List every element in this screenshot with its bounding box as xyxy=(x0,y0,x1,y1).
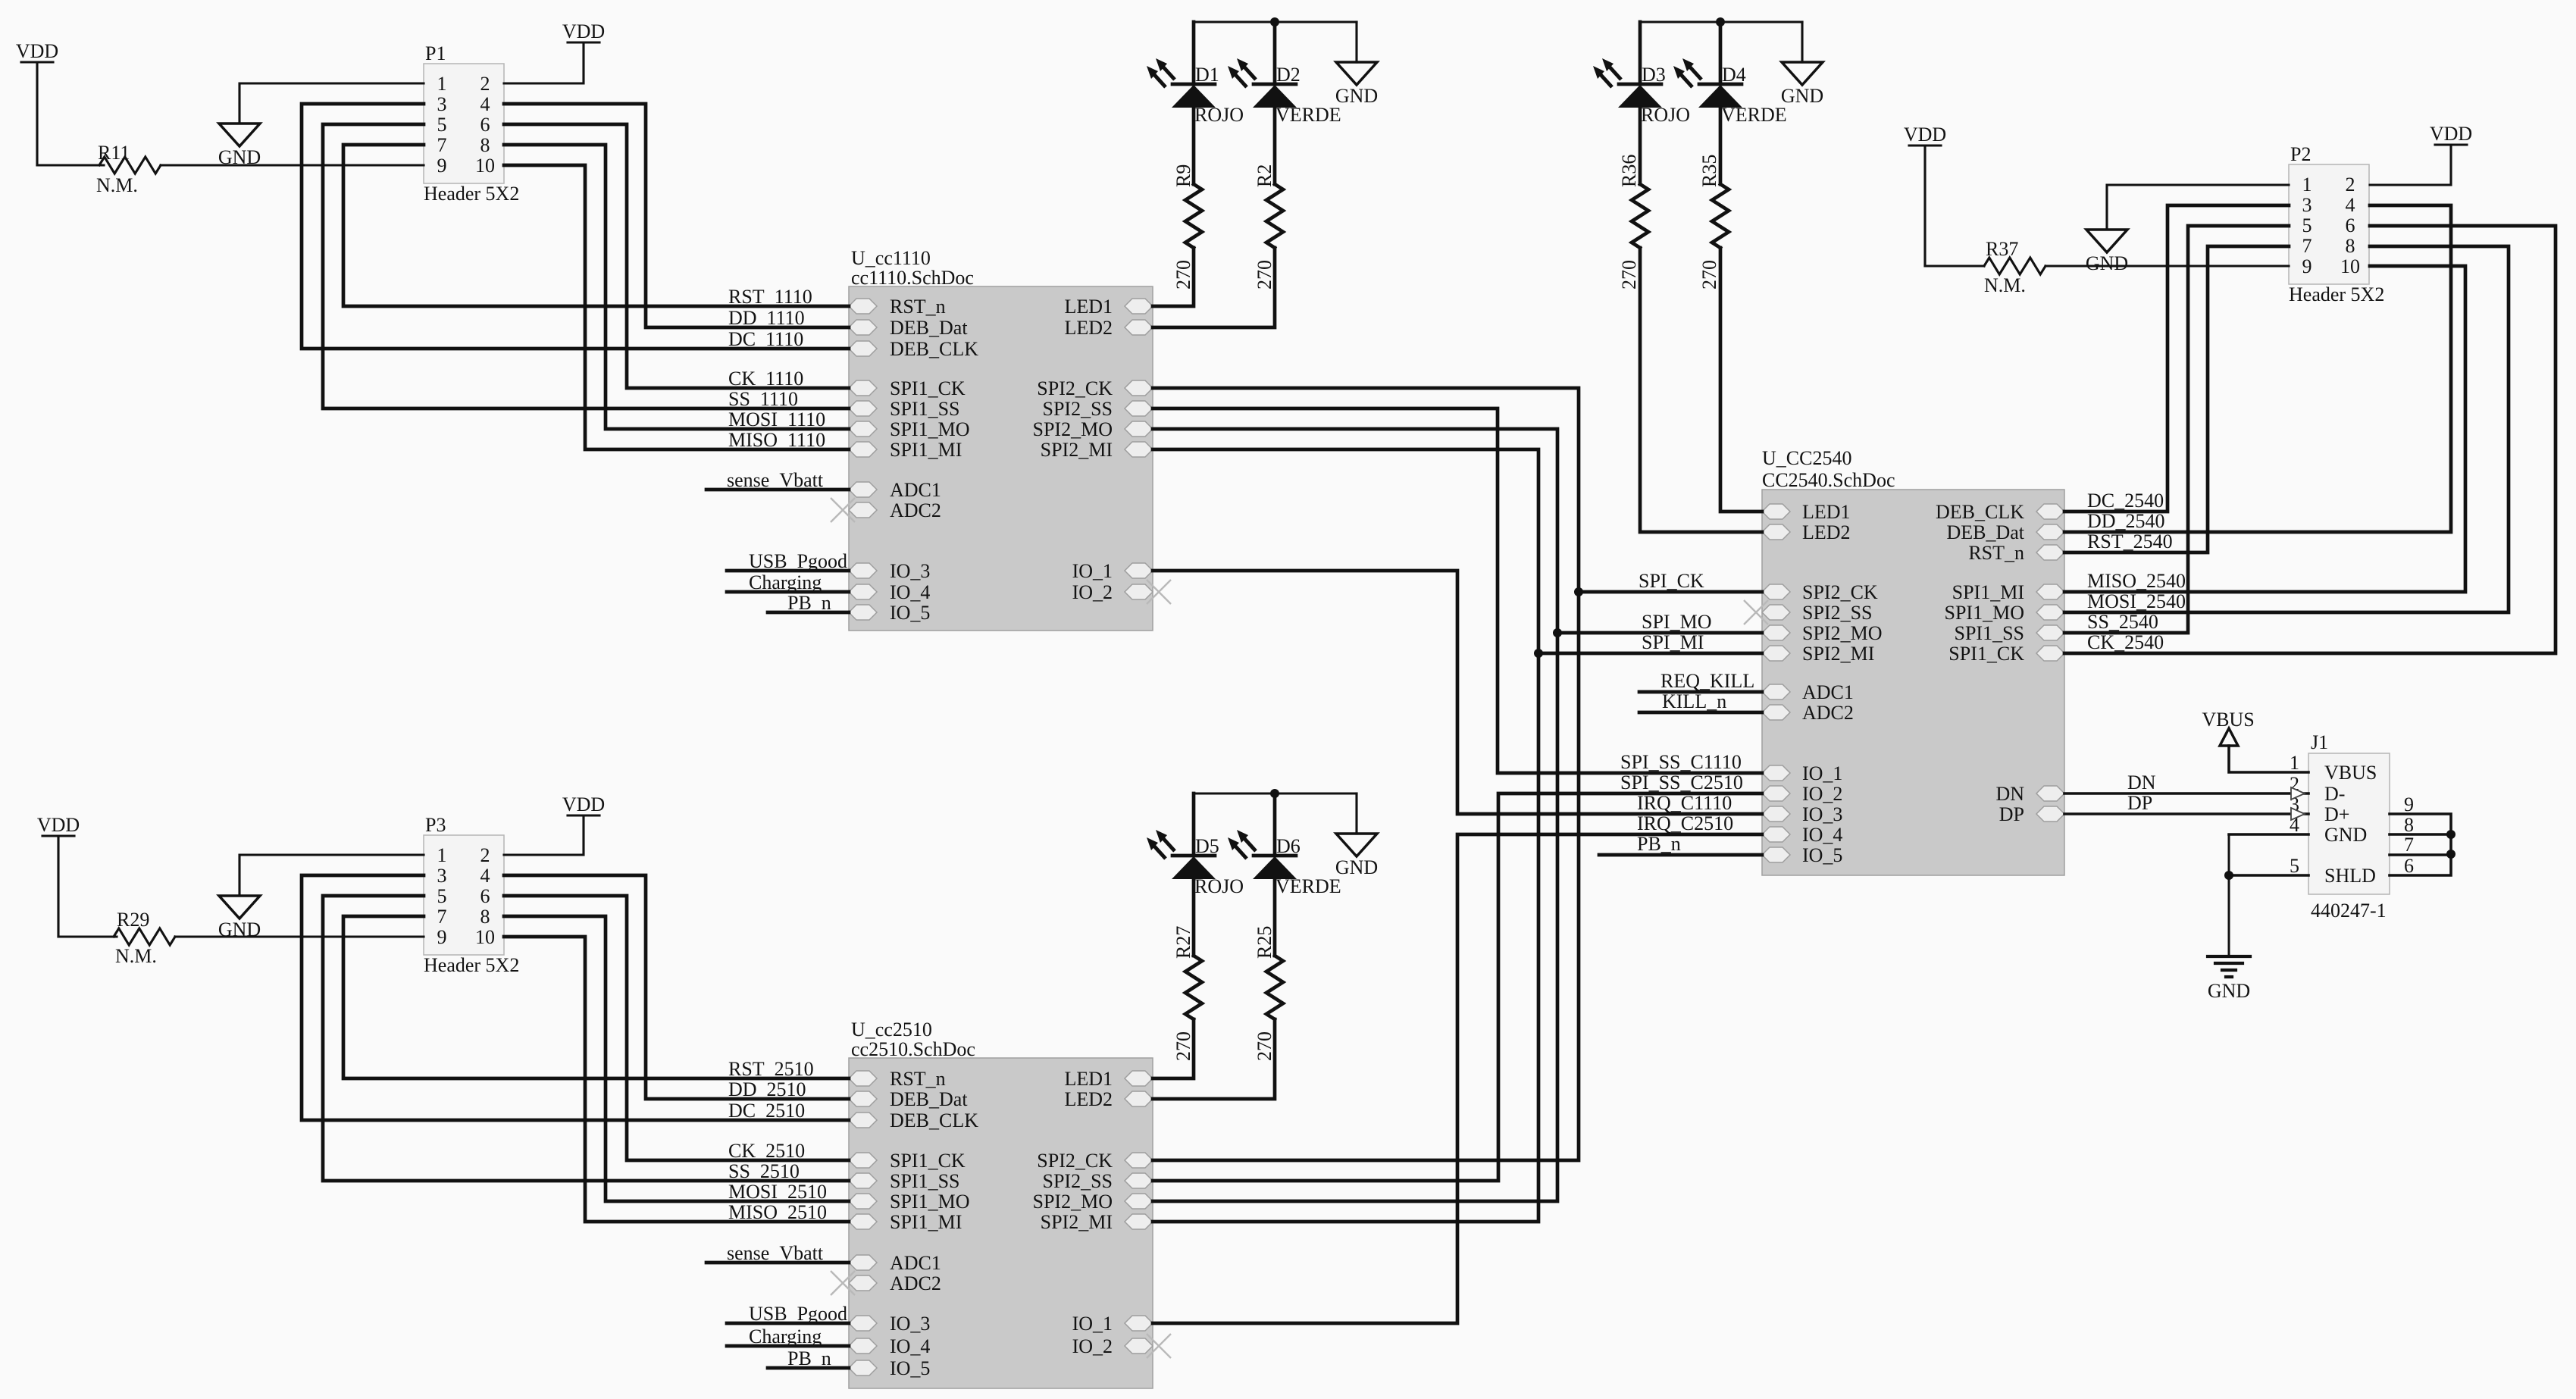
svg-text:440247-1: 440247-1 xyxy=(2311,900,2387,922)
wire net DC_1110 P1 pin3 to DEB_CLK xyxy=(302,104,849,349)
wire net SS_2510 P3 pin5 to SPI1_SS xyxy=(323,896,849,1181)
svg-text:MOSI_2540: MOSI_2540 xyxy=(2087,590,2186,612)
svg-text:SPI2_MI: SPI2_MI xyxy=(1802,643,1874,665)
svg-text:5: 5 xyxy=(437,885,447,907)
svg-text:LED1: LED1 xyxy=(1064,296,1113,318)
svg-text:SPI1_CK: SPI1_CK xyxy=(890,1150,966,1172)
svg-text:KILL_n: KILL_n xyxy=(1662,690,1726,712)
wire SPI_MI tap to CC2540 SPI2_MI xyxy=(1538,652,1762,656)
junction SHLD GND xyxy=(2224,871,2233,880)
wire R11 to P1 pin9 xyxy=(161,164,424,166)
svg-text:3: 3 xyxy=(437,865,447,887)
power VBUS xyxy=(2202,709,2254,746)
svg-text:SS_1110: SS_1110 xyxy=(728,388,798,410)
svg-text:RST_n: RST_n xyxy=(1968,542,2024,564)
wire D4 to R35 xyxy=(1719,108,1723,184)
svg-text:P2: P2 xyxy=(2290,143,2311,165)
svg-text:RST_2540: RST_2540 xyxy=(2087,530,2173,552)
wire cc2510 LED2 to R25 xyxy=(1153,1019,1275,1099)
wire net SPI_SS_C2510 CC2540 IO_2 to cc2510 SPI2_SS xyxy=(1153,793,1762,1181)
wire R37 to P2 pin9 xyxy=(2045,264,2289,267)
svg-text:DP: DP xyxy=(2127,792,2152,814)
wire R35 to CC2540 LED1 xyxy=(1720,248,1762,512)
svg-text:MISO_2540: MISO_2540 xyxy=(2087,570,2186,592)
svg-text:D6: D6 xyxy=(1276,835,1301,857)
wire to resistor R29 xyxy=(58,935,117,937)
svg-text:DD_2540: DD_2540 xyxy=(2087,510,2165,532)
svg-text:8: 8 xyxy=(480,134,490,156)
svg-text:GND: GND xyxy=(218,146,261,168)
wire net DD_2510 P3 pin4 to DEB_Dat xyxy=(504,875,849,1099)
svg-text:SPI2_MI: SPI2_MI xyxy=(1041,439,1113,461)
svg-text:SPI1_MI: SPI1_MI xyxy=(890,1211,962,1233)
svg-text:D-: D- xyxy=(2324,783,2345,805)
svg-text:IO_3: IO_3 xyxy=(1802,803,1842,825)
wire net CK_2510 P3 pin6 to SPI1_CK xyxy=(504,896,849,1160)
svg-text:Charging: Charging xyxy=(749,1325,822,1347)
svg-text:ADC2: ADC2 xyxy=(890,499,941,521)
wire net MISO_1110 P1 pin10 to SPI1_MI xyxy=(504,165,849,449)
svg-text:9: 9 xyxy=(2302,255,2312,277)
resistor R35 zigzag xyxy=(1712,184,1729,248)
svg-text:DEB_CLK: DEB_CLK xyxy=(890,1109,978,1131)
no-connect X on U_cc2510 ADC2 xyxy=(831,1271,855,1295)
sheet symbol U_CC2540 xyxy=(1762,490,2064,875)
power VDD (bottom-left) xyxy=(37,814,80,836)
wire net MISO_2540 SPI1_MI to P2 pin10 xyxy=(2064,266,2465,592)
svg-text:SHLD: SHLD xyxy=(2324,865,2376,887)
svg-text:P3: P3 xyxy=(425,814,446,836)
wire D5 D6 top rail xyxy=(1194,792,1357,794)
wire VDD to R37 xyxy=(1923,146,1926,266)
svg-text:DC_1110: DC_1110 xyxy=(728,328,803,350)
resistor R11 zigzag xyxy=(99,157,161,174)
svg-text:GND: GND xyxy=(1335,856,1378,878)
svg-text:DC_2540: DC_2540 xyxy=(2087,490,2164,512)
svg-text:DN: DN xyxy=(1995,783,2024,805)
wire net SPI_MO bus cc1110 SPI2_MO to cc2510 SPI2_MO xyxy=(1153,429,1557,1201)
resistor R29 zigzag xyxy=(114,928,175,945)
J1 pin names xyxy=(2324,762,2377,887)
svg-text:SPI1_SS: SPI1_SS xyxy=(890,1170,960,1192)
wire net sense_Vbatt to ADC1 xyxy=(706,488,849,492)
wire J1 pin4 GND xyxy=(2229,833,2308,836)
svg-text:D1: D1 xyxy=(1195,64,1219,86)
wire net SPI_MI bus cc1110 SPI2_MI to cc2510 SPI2_MI xyxy=(1153,449,1538,1222)
svg-text:SPI_MO: SPI_MO xyxy=(1642,611,1711,633)
svg-text:SPI2_SS: SPI2_SS xyxy=(1802,602,1873,624)
svg-text:IO_1: IO_1 xyxy=(1072,1313,1113,1335)
wire P3 pin1 to GND xyxy=(239,855,424,896)
svg-text:DEB_Dat: DEB_Dat xyxy=(890,1088,968,1110)
svg-text:VERDE: VERDE xyxy=(1275,875,1341,897)
svg-text:SPI1_CK: SPI1_CK xyxy=(1948,643,2024,665)
svg-text:SPI1_MI: SPI1_MI xyxy=(1952,581,2024,603)
svg-text:10: 10 xyxy=(475,155,495,177)
connector P2 header 5x2 xyxy=(2289,143,2384,305)
svg-text:5: 5 xyxy=(437,114,447,136)
svg-text:VDD: VDD xyxy=(16,40,58,62)
svg-text:R11: R11 xyxy=(98,142,130,164)
power VDD (R37) xyxy=(1904,124,1946,146)
wire P1 pin2 to VDD xyxy=(504,42,584,83)
wire net CK_2540 SPI1_CK to P2 pin6 xyxy=(2064,226,2556,653)
svg-text:270: 270 xyxy=(1618,260,1640,290)
svg-text:USB_Pgood: USB_Pgood xyxy=(749,550,847,572)
power VDD (top-left) xyxy=(16,40,58,62)
svg-text:7: 7 xyxy=(437,906,447,928)
wire R2 to D2 xyxy=(1273,108,1277,184)
svg-text:DEB_CLK: DEB_CLK xyxy=(890,338,978,360)
svg-text:SPI2_MO: SPI2_MO xyxy=(1802,622,1882,644)
svg-text:270: 270 xyxy=(1254,260,1275,290)
wire net MISO_2510 P3 pin10 to SPI1_MI xyxy=(504,937,849,1222)
svg-text:ADC1: ADC1 xyxy=(1802,681,1854,703)
svg-text:Header 5X2: Header 5X2 xyxy=(424,183,519,205)
sheet symbol U_cc1110 xyxy=(849,286,1153,631)
svg-text:CC2540.SchDoc: CC2540.SchDoc xyxy=(1762,469,1895,491)
wire net MOSI_1110 P1 pin8 to SPI1_MO xyxy=(504,145,849,429)
wire VDD to R29 xyxy=(57,836,59,937)
wire net IRQ_C2510 CC2540 IO_4 to cc2510 IO_1 xyxy=(1153,834,1762,1323)
wire net MOSI_2510 P3 pin8 to SPI1_MO xyxy=(504,916,849,1201)
svg-text:6: 6 xyxy=(480,114,490,136)
wire net SS_2540 SPI1_SS to P2 pin5 xyxy=(2064,226,2289,633)
svg-text:PB_n: PB_n xyxy=(787,592,831,614)
svg-text:SPI2_MO: SPI2_MO xyxy=(1033,418,1113,440)
svg-text:GND: GND xyxy=(1335,85,1378,107)
svg-text:D3: D3 xyxy=(1642,64,1666,86)
svg-text:SPI_SS_C2510: SPI_SS_C2510 xyxy=(1620,771,1743,793)
svg-text:GND: GND xyxy=(2086,252,2128,274)
resistor R25 zigzag xyxy=(1266,956,1283,1019)
wire net DD_2540 DEB_Dat to P2 pin4 xyxy=(2064,205,2451,532)
power VDD (P3 pin2) xyxy=(562,793,605,815)
svg-text:SPI2_CK: SPI2_CK xyxy=(1037,377,1113,399)
LED D1 ROJO xyxy=(1147,58,1244,126)
svg-text:IO_5: IO_5 xyxy=(890,1357,930,1379)
svg-text:N.M.: N.M. xyxy=(96,174,138,196)
earth ground GND (J1) xyxy=(2208,956,2250,1002)
wire P2 pin2 to VDD xyxy=(2370,145,2451,185)
wire net CK_1110 P1 pin6 to SPI1_CK xyxy=(504,124,849,388)
svg-text:RST_n: RST_n xyxy=(890,1068,946,1090)
svg-text:SPI1_MO: SPI1_MO xyxy=(890,1191,969,1213)
svg-text:ROJO: ROJO xyxy=(1194,104,1244,126)
ground GND (D3 D4) xyxy=(1781,62,1823,107)
svg-text:SPI1_MI: SPI1_MI xyxy=(890,439,962,461)
resistor R37 zigzag xyxy=(1984,258,2045,274)
junction SPI_CK xyxy=(1574,587,1583,596)
svg-text:RST_1110: RST_1110 xyxy=(728,286,812,308)
svg-text:VERDE: VERDE xyxy=(1721,104,1787,126)
svg-text:VDD: VDD xyxy=(1904,124,1946,146)
wire SPI_MO tap to CC2540 SPI2_MO xyxy=(1557,631,1762,635)
svg-text:5: 5 xyxy=(2302,214,2312,236)
svg-text:CK_1110: CK_1110 xyxy=(728,368,803,390)
resistor R9 zigzag xyxy=(1185,184,1202,248)
wire R36 to CC2540 LED2 xyxy=(1640,248,1762,532)
svg-text:IO_5: IO_5 xyxy=(1802,844,1842,866)
svg-text:ROJO: ROJO xyxy=(1641,104,1690,126)
svg-text:SS_2540: SS_2540 xyxy=(2087,611,2158,633)
wire SPI_CK tap to CC2540 SPI2_CK xyxy=(1579,590,1762,594)
svg-text:SPI_CK: SPI_CK xyxy=(1639,570,1704,592)
svg-text:7: 7 xyxy=(437,134,447,156)
svg-text:SPI2_MI: SPI2_MI xyxy=(1041,1211,1113,1233)
svg-text:270: 270 xyxy=(1698,260,1720,290)
svg-text:VDD: VDD xyxy=(2430,123,2472,145)
svg-text:VBUS: VBUS xyxy=(2324,762,2377,784)
svg-text:IO_1: IO_1 xyxy=(1802,762,1842,784)
J1 pin numbers xyxy=(2290,752,2414,877)
wire net KILL_n to ADC2 xyxy=(1639,711,1762,715)
svg-text:U_cc2510: U_cc2510 xyxy=(851,1019,932,1041)
svg-text:LED1: LED1 xyxy=(1064,1068,1113,1090)
svg-text:SPI2_MO: SPI2_MO xyxy=(1033,1191,1113,1213)
svg-text:Header 5X2: Header 5X2 xyxy=(424,954,519,976)
no-connect X on U_cc1110 IO_2 xyxy=(1147,580,1171,604)
connector J1 440247-1 xyxy=(2308,753,2390,894)
svg-text:VDD: VDD xyxy=(37,814,80,836)
svg-text:IO_2: IO_2 xyxy=(1802,783,1842,805)
svg-text:6: 6 xyxy=(2346,214,2355,236)
svg-text:PB_n: PB_n xyxy=(1637,833,1681,855)
junction J1 pin8 xyxy=(2446,830,2455,839)
wire LED top rail to GND xyxy=(1194,20,1357,23)
svg-text:RST_2510: RST_2510 xyxy=(728,1058,814,1080)
wire D2 to top rail xyxy=(1273,22,1277,84)
svg-text:LED2: LED2 xyxy=(1802,521,1851,543)
resistor R27 zigzag xyxy=(1185,956,1202,1019)
svg-text:R25: R25 xyxy=(1254,926,1275,959)
svg-text:R27: R27 xyxy=(1172,926,1194,959)
svg-text:7: 7 xyxy=(2302,235,2312,257)
wire J1 pin5 SHLD xyxy=(2229,874,2308,877)
svg-text:9: 9 xyxy=(437,155,447,177)
resistor R2 zigzag xyxy=(1266,184,1283,248)
svg-text:SPI2_CK: SPI2_CK xyxy=(1802,581,1878,603)
svg-text:IO_2: IO_2 xyxy=(1072,581,1113,603)
svg-text:DN: DN xyxy=(2127,771,2156,793)
wire net PB_n to CC2540 IO_5 xyxy=(1599,853,1762,857)
svg-text:SPI_SS_C1110: SPI_SS_C1110 xyxy=(1620,751,1742,773)
wire R9 to D1 xyxy=(1192,108,1196,184)
svg-text:IO_4: IO_4 xyxy=(1802,824,1842,846)
svg-text:SPI_MI: SPI_MI xyxy=(1642,631,1704,653)
ground GND (P2) xyxy=(2086,230,2128,274)
wire net DC_2510 P3 pin3 to DEB_CLK xyxy=(302,875,849,1120)
svg-text:IO_4: IO_4 xyxy=(890,581,930,603)
wire top rail to D3 xyxy=(1639,22,1642,84)
svg-text:ADC1: ADC1 xyxy=(890,479,941,501)
svg-text:LED2: LED2 xyxy=(1064,1088,1113,1110)
svg-text:D4: D4 xyxy=(1722,64,1746,86)
svg-text:VDD: VDD xyxy=(562,793,605,815)
power VDD (P1 pin2) xyxy=(562,20,605,42)
svg-text:DEB_Dat: DEB_Dat xyxy=(1946,521,2024,543)
svg-text:ADC2: ADC2 xyxy=(890,1272,941,1294)
wire LED2 to R2 xyxy=(1153,248,1275,327)
wire net RST_1110 P1 pin7 to RST_n xyxy=(343,145,849,306)
svg-text:IRQ_C2510: IRQ_C2510 xyxy=(1637,812,1733,834)
svg-text:IO_5: IO_5 xyxy=(890,602,930,624)
svg-text:Header 5X2: Header 5X2 xyxy=(2289,283,2384,305)
svg-text:7: 7 xyxy=(2404,834,2414,856)
svg-text:3: 3 xyxy=(437,93,447,115)
svg-text:6: 6 xyxy=(480,885,490,907)
svg-text:270: 270 xyxy=(1172,260,1194,290)
wire D1 to top rail xyxy=(1192,22,1196,84)
wire LED1 to R9 xyxy=(1153,248,1194,306)
svg-text:Charging: Charging xyxy=(749,571,822,593)
svg-text:R29: R29 xyxy=(117,909,149,931)
wire net REQ_KILL to ADC1 xyxy=(1639,690,1762,694)
svg-text:2: 2 xyxy=(480,73,490,95)
svg-text:4: 4 xyxy=(2346,194,2355,216)
wire R27 to D5 xyxy=(1192,879,1196,956)
svg-text:IO_3: IO_3 xyxy=(890,560,930,582)
wire rail to GND symbol xyxy=(1355,793,1357,834)
svg-text:R2: R2 xyxy=(1254,164,1275,187)
svg-text:SPI2_CK: SPI2_CK xyxy=(1037,1150,1113,1172)
wire net IRQ_C1110 cc1110 IO_1 to CC2540 IO_3 xyxy=(1153,571,1762,814)
svg-text:N.M.: N.M. xyxy=(1984,274,2026,296)
svg-text:1: 1 xyxy=(437,844,447,866)
wire J1 pins 6-9 tie xyxy=(2390,814,2451,875)
LED D3 ROJO xyxy=(1593,58,1690,126)
LED D4 VERDE xyxy=(1673,58,1787,126)
svg-text:SPI1_SS: SPI1_SS xyxy=(890,398,960,420)
svg-text:PB_n: PB_n xyxy=(787,1347,831,1369)
wire top rail to D4 xyxy=(1719,22,1723,84)
junction D2 rail xyxy=(1270,17,1279,27)
wire net DC_2540 DEB_CLK to P2 pin3 xyxy=(2064,205,2289,512)
U_cc1110 right pins xyxy=(1033,296,1153,603)
svg-text:USB_Pgood: USB_Pgood xyxy=(749,1303,847,1325)
svg-text:D+: D+ xyxy=(2324,803,2349,825)
svg-text:MISO_2510: MISO_2510 xyxy=(728,1201,827,1223)
svg-text:CK_2540: CK_2540 xyxy=(2087,631,2164,653)
svg-text:U_cc1110: U_cc1110 xyxy=(851,247,931,269)
no-connect X on U_cc1110 ADC2 xyxy=(831,498,855,522)
wire net SPI_SS_C1110 cc1110 SPI2_SS to CC2540 IO_1 xyxy=(1153,408,1762,773)
LED D2 VERDE xyxy=(1228,58,1341,126)
LED D5 ROJO xyxy=(1147,830,1244,897)
svg-text:8: 8 xyxy=(2346,235,2355,257)
svg-text:N.M.: N.M. xyxy=(115,945,157,967)
svg-text:SPI1_SS: SPI1_SS xyxy=(1955,622,2025,644)
svg-text:SPI2_SS: SPI2_SS xyxy=(1043,1170,1113,1192)
LED D6 VERDE xyxy=(1228,830,1341,897)
svg-text:sense_Vbatt: sense_Vbatt xyxy=(727,469,824,491)
svg-text:3: 3 xyxy=(2302,194,2312,216)
wire VDD to R11 xyxy=(36,62,38,165)
svg-text:R37: R37 xyxy=(1986,238,2018,260)
svg-text:DEB_CLK: DEB_CLK xyxy=(1936,501,2024,523)
svg-text:DD_1110: DD_1110 xyxy=(728,307,805,329)
wire D3 to R36 xyxy=(1639,108,1642,184)
svg-text:GND: GND xyxy=(1781,85,1823,107)
wire P3 pin2 to VDD xyxy=(504,815,584,855)
U_CC2540 right pins xyxy=(1936,501,2064,825)
wire net sense_Vbatt to cc2510 ADC1 xyxy=(706,1261,849,1265)
wire P2 pin1 to GND xyxy=(2107,185,2289,230)
no-connect X on U_CC2540 SPI2_SS xyxy=(1744,600,1768,624)
ground GND (D5 D6) xyxy=(1335,834,1378,878)
svg-text:GND: GND xyxy=(2208,980,2250,1002)
svg-text:ADC2: ADC2 xyxy=(1802,702,1854,724)
svg-text:ROJO: ROJO xyxy=(1194,875,1244,897)
svg-text:IRQ_C1110: IRQ_C1110 xyxy=(1637,792,1732,814)
svg-text:270: 270 xyxy=(1254,1031,1275,1061)
svg-text:R36: R36 xyxy=(1618,155,1640,187)
svg-text:1: 1 xyxy=(2290,752,2299,774)
svg-text:P1: P1 xyxy=(425,42,446,64)
ground GND (P1) xyxy=(218,124,261,168)
svg-text:LED1: LED1 xyxy=(1802,501,1851,523)
svg-text:10: 10 xyxy=(475,926,495,948)
svg-text:1: 1 xyxy=(437,73,447,95)
svg-text:GND: GND xyxy=(218,919,261,940)
wire D5 to rail xyxy=(1192,793,1196,856)
svg-text:MOSI_2510: MOSI_2510 xyxy=(728,1181,827,1203)
svg-text:SS_2510: SS_2510 xyxy=(728,1160,800,1182)
wire net DD_1110 P1 pin4 to DEB_Dat xyxy=(504,104,849,327)
svg-text:VDD: VDD xyxy=(562,20,605,42)
wire GND drop to earth xyxy=(2228,834,2230,956)
connector P3 header 5x2 xyxy=(424,814,519,976)
svg-text:D5: D5 xyxy=(1195,835,1219,857)
svg-text:R9: R9 xyxy=(1172,164,1194,187)
svg-text:5: 5 xyxy=(2290,855,2299,877)
wire net SS_1110 P1 pin5 to SPI1_SS xyxy=(323,124,849,408)
svg-text:LED2: LED2 xyxy=(1064,317,1113,339)
wire net USB_Pgood to cc2510 IO_3 xyxy=(727,1322,849,1325)
svg-text:D2: D2 xyxy=(1276,64,1301,86)
svg-text:2: 2 xyxy=(2346,174,2355,196)
wire rail to GND symbol xyxy=(1801,22,1803,62)
wire net RST_2510 P3 pin7 to RST_n xyxy=(343,916,849,1078)
svg-text:CK_2510: CK_2510 xyxy=(728,1140,805,1162)
wire P1 pin1 to GND xyxy=(239,83,424,124)
svg-text:SPI1_CK: SPI1_CK xyxy=(890,377,966,399)
U_cc1110 left pins xyxy=(849,296,978,624)
wire VBUS to J1 pin1 xyxy=(2229,746,2308,772)
svg-text:MISO_1110: MISO_1110 xyxy=(728,429,825,451)
wire net DP CC2540 to J1 pin3 xyxy=(2064,812,2308,815)
svg-text:VBUS: VBUS xyxy=(2202,709,2254,731)
svg-text:6: 6 xyxy=(2404,855,2414,877)
svg-text:DC_2510: DC_2510 xyxy=(728,1100,805,1122)
svg-text:8: 8 xyxy=(480,906,490,928)
svg-text:9: 9 xyxy=(437,926,447,948)
wire net PB_n to IO_5 xyxy=(768,611,849,615)
junction D6 rail xyxy=(1270,789,1279,798)
ground GND (D1 D2) xyxy=(1335,62,1378,107)
junction J1 pin7 xyxy=(2446,850,2455,859)
svg-text:IO_1: IO_1 xyxy=(1072,560,1113,582)
svg-text:sense_Vbatt: sense_Vbatt xyxy=(727,1242,824,1264)
connector P1 header 5x2 xyxy=(424,42,519,205)
svg-text:IO_2: IO_2 xyxy=(1072,1335,1113,1357)
svg-text:IO_3: IO_3 xyxy=(890,1313,930,1335)
no-connect X on U_cc2510 IO_2 xyxy=(1147,1334,1171,1358)
wire net USB_Pgood to IO_3 xyxy=(727,569,849,573)
svg-text:RST_n: RST_n xyxy=(890,296,946,318)
svg-text:10: 10 xyxy=(2340,255,2360,277)
wire D3 D4 top rail xyxy=(1640,20,1802,23)
